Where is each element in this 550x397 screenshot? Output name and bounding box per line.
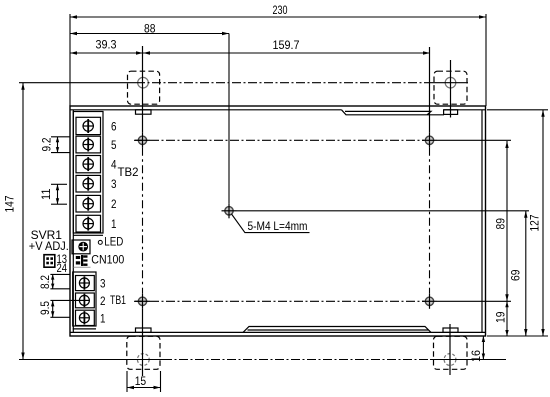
TB2 cell 4 (76, 156, 101, 173)
bottom-right flange tab (443, 328, 458, 332)
svg-text:5-M4 L=4mm: 5-M4 L=4mm (248, 219, 308, 233)
dimension line 9.5 (51, 300, 54, 317)
dimension line 16 (482, 336, 485, 360)
svg-text:9.2: 9.2 (40, 137, 54, 151)
TB1 cell 1 (76, 310, 95, 325)
svg-text:4: 4 (111, 158, 117, 172)
top-left mounting flange (hidden) (128, 71, 160, 104)
cover screw hole top-left (135, 133, 150, 148)
dimension line 11 (56, 184, 59, 204)
dimension line 9.2 (56, 137, 59, 153)
TB2 cell 3 (76, 175, 101, 192)
extension line 89 dim top (437, 139, 511, 141)
svg-text:LED: LED (104, 235, 123, 249)
CN100 base line (74, 266, 91, 268)
TB2 screw 6 (83, 119, 93, 133)
connector CN100 icon (76, 255, 88, 266)
bottom-left flange hole (137, 354, 149, 366)
dimension line 147 (21, 83, 24, 360)
svg-text:159.7: 159.7 (273, 38, 300, 52)
svg-text:147: 147 (3, 195, 17, 212)
dimension line 69 (524, 211, 527, 336)
centerline bottom flange holes horizontal (19, 359, 163, 361)
dimension line 19 (505, 301, 508, 336)
TB1 screw 3 (79, 276, 89, 289)
top louver vent (342, 110, 445, 115)
extension line right top edge for 127 dim (487, 109, 548, 111)
svg-text:9.5: 9.5 (38, 301, 52, 315)
svg-text:1: 1 (111, 217, 117, 231)
dimension 9.5 extension lines (50, 300, 79, 317)
svg-text:1: 1 (100, 311, 106, 325)
svg-text:TB2: TB2 (118, 165, 139, 179)
bottom louver vent (243, 327, 431, 333)
LED indicator circle (98, 240, 102, 244)
svg-text:CN100: CN100 (91, 252, 124, 266)
top-right flange hole (445, 77, 456, 88)
case body inner top edge (70, 109, 486, 111)
centerline bottom cover screws horizontal (134, 300, 424, 302)
CN100 pinout legend square (44, 255, 55, 268)
extension line 88 dim to center hole (228, 34, 230, 204)
TB2 cell 5 (76, 136, 101, 153)
centerline bottom-right flange vertical (449, 324, 451, 375)
potentiometer SVR1 box (72, 240, 90, 254)
centerline right screws chain vertical (429, 47, 431, 133)
svg-text:16: 16 (469, 350, 483, 362)
TB1 screw 2 (79, 294, 89, 307)
svg-text:88: 88 (144, 22, 156, 36)
svg-text:39.3: 39.3 (96, 38, 117, 52)
centerline top-right flange vertical (450, 60, 452, 118)
extension line left for top dims (69, 14, 71, 106)
svg-text:89: 89 (494, 218, 508, 230)
svg-text:69: 69 (509, 269, 523, 281)
svg-text:3: 3 (111, 177, 117, 191)
dimension 15 extension lines (127, 371, 161, 392)
bottom-left flange tab (136, 328, 152, 332)
dimension line 230 (70, 15, 486, 18)
terminal block TB2 outline (73, 112, 103, 234)
svg-text:8.2: 8.2 (38, 275, 52, 289)
center tapped hole 5-M4 (222, 203, 237, 218)
TB2 screw 2 (83, 197, 93, 211)
top-right flange tab (444, 110, 458, 115)
extension line right for 230 dim (485, 14, 487, 106)
TB2 screw 1 (83, 217, 93, 231)
centerline top cover screws horizontal (134, 139, 424, 141)
svg-text:15: 15 (135, 374, 147, 388)
TB2 cell 6 (76, 117, 101, 134)
svg-text:2: 2 (100, 294, 106, 308)
TB1 screw 1 (79, 311, 89, 324)
svg-text:11: 11 (39, 188, 53, 200)
svg-text:127: 127 (528, 214, 542, 231)
dimension 8.2 extension lines (50, 274, 69, 288)
cover screw hole bottom-right (422, 294, 437, 309)
TB1 cell 3 (76, 276, 95, 291)
top-right mounting flange (hidden) (434, 71, 467, 104)
svg-text:5: 5 (111, 138, 117, 152)
TB2 cell 1 (76, 215, 101, 232)
TB1 cell 2 (76, 293, 95, 308)
TB2 screw 4 (83, 157, 93, 171)
case body inner right edge (481, 110, 483, 333)
terminal block TB1 outline (73, 272, 96, 326)
extension line right bottom edge for 127/69/19 dims (487, 335, 548, 337)
dimension line 88 (70, 32, 229, 35)
extension line 89 dim bottom (437, 300, 511, 302)
dimension line 39.3 (70, 51, 143, 54)
dimension 9.2 extension lines (51, 137, 70, 153)
TB2 cell 2 (76, 195, 101, 212)
svg-text:3: 3 (100, 277, 106, 291)
extension line center hole to 69 dim (237, 210, 530, 212)
centerline top flange holes horizontal (19, 82, 136, 84)
dimension line 89 (505, 141, 508, 301)
svg-text:+V ADJ.: +V ADJ. (29, 239, 69, 253)
top-left flange hole (138, 77, 149, 88)
dimension line 127 (541, 110, 544, 336)
case body inner bottom edge (70, 331, 486, 333)
case body inner left edge (72, 110, 74, 333)
bottom-left mounting flange (hidden) (127, 336, 160, 369)
dimension line 15 (127, 386, 161, 389)
svg-text:TB1: TB1 (110, 293, 126, 307)
centerline left flange chain vertical (142, 46, 144, 133)
case body outer outline (70, 106, 486, 336)
SVR1 screw head (79, 242, 88, 251)
dimension 11 extension lines (51, 184, 67, 204)
dimension line 159.7 (143, 51, 430, 54)
bottom-right flange hole (444, 354, 456, 366)
cover screw hole top-right (422, 133, 437, 148)
svg-text:24: 24 (57, 261, 68, 275)
leader line 5-M4 note (232, 214, 310, 233)
TB2 screw 5 (83, 138, 93, 152)
bottom-right mounting flange (hidden) (434, 336, 468, 369)
svg-text:230: 230 (273, 3, 288, 17)
terminal block TB1 bottom lip (73, 328, 96, 330)
dimension line 8.2 (51, 274, 54, 288)
svg-text:19: 19 (494, 311, 508, 323)
svg-text:2: 2 (111, 197, 117, 211)
top-left flange tab (136, 110, 152, 114)
cover screw hole bottom-left (135, 294, 150, 309)
TB2 screw 3 (83, 177, 93, 191)
svg-text:6: 6 (111, 120, 117, 134)
terminal block TB2 bottom lip (73, 234, 103, 236)
